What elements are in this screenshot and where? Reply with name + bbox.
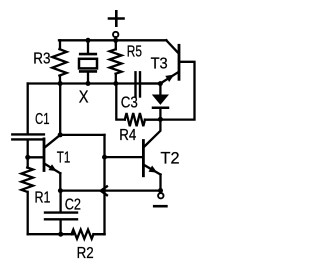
wire diode cathode lead <box>159 109 161 120</box>
wire T1 emitter riser <box>59 173 61 190</box>
svg-text:R4: R4 <box>119 127 136 144</box>
resistor R5 <box>115 40 117 49</box>
node T2 emitter <box>158 188 163 193</box>
wire mid rail <box>28 82 161 84</box>
wire T2 emitter riser <box>159 175 161 194</box>
wire T1 collector feedback <box>60 134 104 136</box>
resistor R3 <box>59 40 61 49</box>
svg-text:C3: C3 <box>121 95 138 112</box>
wire bottom rail right <box>94 233 105 235</box>
node C2 bottom <box>58 232 63 237</box>
feedback chevron junction <box>101 186 107 195</box>
wire right riser x104.5 <box>103 135 105 234</box>
wire bottom rail left <box>28 233 73 235</box>
node R5 bottom <box>113 81 118 86</box>
svg-text:T3: T3 <box>151 56 168 73</box>
transistor T1 <box>44 135 60 173</box>
wire R4 to T3 base loop <box>145 62 195 120</box>
wire C1 to R1 node <box>27 140 29 157</box>
capacitor C1 <box>12 134 44 139</box>
capacitor C2 <box>45 213 77 220</box>
resistor R4 <box>125 113 145 126</box>
transistor T2 emitter arrow <box>149 166 158 173</box>
capacitor C3 <box>136 72 161 96</box>
transistor T3 emitter arrow <box>165 75 174 82</box>
wire T1 collector riser <box>59 84 61 135</box>
wire emitter rail y190.7 <box>60 189 160 191</box>
node T3 emitter <box>158 81 163 86</box>
node T1 emitter <box>58 188 63 193</box>
svg-text:R5: R5 <box>127 44 142 61</box>
svg-text:T1: T1 <box>57 150 71 167</box>
svg-text:R1: R1 <box>35 190 51 207</box>
svg-text:X: X <box>79 87 89 107</box>
svg-text:R3: R3 <box>33 50 50 67</box>
resistor R2 <box>70 233 72 235</box>
wire top supply rail <box>59 39 166 41</box>
wire diode anode lead <box>159 84 161 96</box>
node T2 base <box>102 155 107 160</box>
plus terminal <box>109 11 124 40</box>
node T1 collector corner <box>58 132 63 137</box>
node crystal bottom <box>86 81 91 86</box>
node supply <box>113 38 118 43</box>
svg-text:T2: T2 <box>161 149 180 167</box>
wire C2 top lead <box>59 191 61 212</box>
wire T2 collector riser <box>145 120 161 147</box>
node R3 bottom <box>58 81 63 86</box>
minus terminal <box>154 193 166 206</box>
wire T2 base <box>105 156 143 158</box>
transistor T1 emitter arrow <box>48 164 56 171</box>
wire T1 base <box>28 156 43 158</box>
node T1 base <box>25 155 30 160</box>
wire C1 riser <box>27 84 29 134</box>
diode D1 <box>153 95 168 107</box>
node diode cathode <box>158 117 163 122</box>
svg-text:C1: C1 <box>35 111 50 128</box>
transistor T2 <box>143 141 160 176</box>
crystal X <box>79 40 97 83</box>
svg-text:C2: C2 <box>65 196 81 213</box>
wire C2 bottom lead <box>59 220 61 234</box>
node crystal top <box>86 38 91 43</box>
transistor T3 <box>160 40 179 83</box>
wire R4 left riser <box>116 84 125 120</box>
resistor R1 <box>27 157 29 167</box>
svg-text:R2: R2 <box>77 245 94 262</box>
